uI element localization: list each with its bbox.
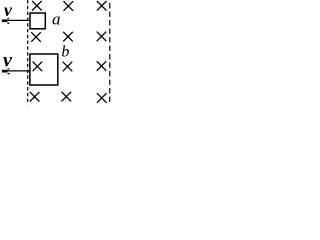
background bbox=[0, 0, 113, 105]
left field-boundary dashed line bbox=[27, 0, 29, 105]
x r2c2 bbox=[63, 32, 73, 42]
svg-text:v: v bbox=[3, 50, 13, 72]
x r1c1 bbox=[32, 1, 42, 11]
velocity arrow a: head bbox=[2, 18, 9, 24]
x r4c1 bbox=[30, 92, 40, 102]
right field-boundary dashed line bbox=[109, 3, 111, 105]
x r1c2 bbox=[64, 1, 74, 11]
svg-text:v: v bbox=[4, 0, 13, 20]
x r2c3 bbox=[97, 32, 107, 42]
x r1c3 bbox=[97, 1, 107, 11]
x r3c2 bbox=[63, 62, 73, 72]
loop b (large square) bbox=[30, 54, 58, 85]
x r2c1 bbox=[31, 32, 41, 42]
cross center dots bbox=[34, 5, 103, 99]
svg-text:a: a bbox=[52, 9, 61, 28]
x r4c3 bbox=[97, 93, 107, 103]
loop a (small square) bbox=[30, 13, 45, 29]
velocity arrow b: shaft bbox=[6, 70, 31, 72]
velocity arrow a: shaft bbox=[6, 19, 31, 21]
svg-text:b: b bbox=[61, 44, 69, 61]
x r3c3 bbox=[97, 61, 107, 71]
x r4c2 bbox=[62, 92, 72, 102]
field crosses bbox=[30, 1, 107, 103]
velocity arrow b: head bbox=[2, 68, 10, 74]
x r3c1 (inside loop b) bbox=[33, 62, 43, 72]
